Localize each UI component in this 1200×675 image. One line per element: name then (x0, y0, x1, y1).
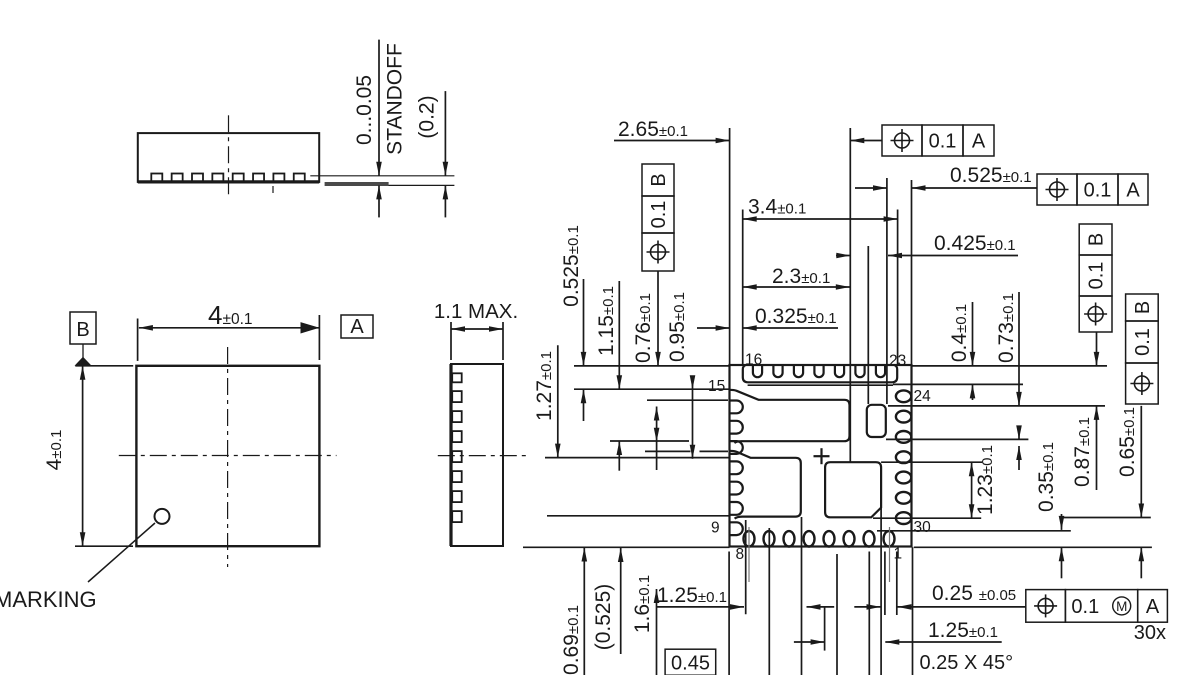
svg-text:0...0.05: 0...0.05 (353, 75, 376, 145)
svg-text:8: 8 (736, 546, 745, 563)
svg-text:A: A (972, 131, 986, 153)
svg-text:A: A (1126, 180, 1140, 202)
svg-text:0.1: 0.1 (1084, 180, 1112, 202)
svg-text:0.1: 0.1 (1086, 262, 1108, 290)
svg-text:A: A (1146, 596, 1160, 618)
svg-text:(0.525): (0.525) (592, 584, 615, 651)
svg-text:B: B (648, 173, 670, 186)
svg-text:0.1: 0.1 (648, 201, 670, 229)
svg-text:B: B (76, 319, 89, 341)
svg-text:1.1 MAX.: 1.1 MAX. (434, 300, 518, 323)
svg-text:1: 1 (894, 546, 903, 563)
svg-text:M: M (1116, 599, 1127, 614)
svg-text:(0.2): (0.2) (416, 95, 439, 138)
svg-text:A: A (350, 316, 364, 338)
svg-text:B: B (1086, 233, 1108, 246)
svg-text:30x: 30x (1134, 622, 1166, 644)
svg-text:MARKING: MARKING (0, 587, 97, 612)
svg-text:30: 30 (914, 519, 932, 536)
svg-text:0.1: 0.1 (1132, 328, 1154, 356)
svg-text:0.25 X 45°: 0.25 X 45° (920, 652, 1014, 674)
svg-text:B: B (1132, 301, 1154, 314)
svg-text:16: 16 (745, 352, 762, 369)
svg-text:0.1: 0.1 (1071, 596, 1099, 618)
svg-text:9: 9 (711, 520, 720, 537)
svg-text:15: 15 (708, 378, 725, 395)
svg-text:24: 24 (914, 388, 932, 405)
svg-text:0.1: 0.1 (929, 131, 957, 153)
svg-text:0.45: 0.45 (671, 653, 710, 675)
svg-text:STANDOFF: STANDOFF (384, 43, 407, 155)
